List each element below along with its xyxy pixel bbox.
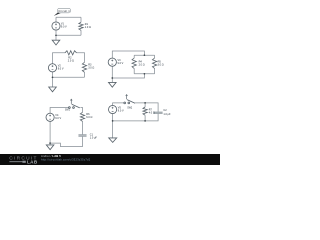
- svg-text:9.0 V: 9.0 V: [118, 62, 124, 65]
- svg-text:LAB: LAB: [27, 160, 38, 165]
- svg-text:1.0 Ω: 1.0 Ω: [85, 26, 91, 29]
- svg-text:9.0 V: 9.0 V: [118, 109, 124, 112]
- svg-text:3.0 Ω: 3.0 Ω: [158, 64, 164, 67]
- svg-text:4.0 Ω: 4.0 Ω: [149, 112, 155, 115]
- svg-text:9.0 V: 9.0 V: [55, 117, 61, 120]
- svg-text:9.0 V: 9.0 V: [58, 68, 64, 71]
- svg-text:2.0 Ω: 2.0 Ω: [68, 60, 74, 63]
- svg-text:6.0 Ω: 6.0 Ω: [86, 116, 92, 119]
- svg-text:3.0 Ω: 3.0 Ω: [88, 67, 94, 70]
- svg-text:1.0 μF: 1.0 μF: [163, 113, 171, 116]
- svg-text:SW1: SW1: [65, 109, 71, 111]
- svg-text:SW2: SW2: [127, 108, 133, 110]
- svg-text:9.0 V: 9.0 V: [61, 26, 67, 29]
- svg-text:1.0 μF: 1.0 μF: [90, 136, 98, 139]
- svg-text:2.0 Ω: 2.0 Ω: [139, 64, 145, 67]
- svg-text:Andrei / LAB 5: Andrei / LAB 5: [41, 154, 61, 158]
- svg-text:http://circuitlab.com/c/3323c3: http://circuitlab.com/c/3323c35c7d2: [41, 158, 91, 162]
- svg-text:Circuit 1: Circuit 1: [58, 9, 70, 13]
